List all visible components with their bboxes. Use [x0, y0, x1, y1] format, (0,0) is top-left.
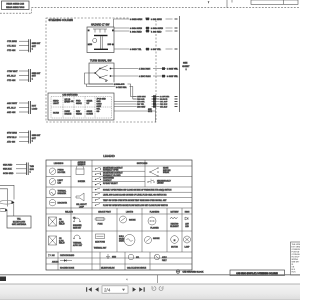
wire bundle row 2: [133, 97, 178, 101]
connector group C: [7, 101, 38, 114]
legend table: [46, 154, 192, 270]
title block: [230, 270, 285, 276]
svg-text:AXLE: AXLE: [162, 256, 167, 259]
svg-text:ANODE: ANODE: [52, 261, 59, 264]
svg-text:HOODED DIODE: HOODED DIODE: [60, 268, 75, 270]
legend cell: relay 4pin: [49, 217, 66, 226]
wire bundle row 5: [114, 105, 178, 109]
legend cell: rotary switch: [95, 182, 119, 185]
svg-text:4GH WHT: 4GH WHT: [7, 103, 18, 105]
svg-text:CAB GROUND BLOCK: CAB GROUND BLOCK: [183, 270, 205, 273]
page number field: [102, 286, 128, 293]
svg-text:FLASHER: FLASHER: [150, 227, 159, 230]
svg-text:SEE: SEE: [183, 63, 188, 65]
svg-text:2/4: 2/4: [104, 288, 111, 293]
svg-text:RELAY: RELAY: [59, 223, 66, 226]
legend cell: buzzer: [76, 165, 86, 183]
legend cell: gauge2: [145, 237, 161, 244]
svg-text:SWITCHES: SWITCHES: [137, 163, 148, 165]
connector group D: [7, 131, 41, 144]
next page button: [133, 287, 136, 292]
legend cell: discharge sensor: [49, 200, 67, 206]
wire hazard top: [114, 17, 178, 27]
legend cell: axle: [154, 254, 167, 262]
svg-text:190: 190: [89, 44, 92, 46]
svg-text:MOTOR: MOTOR: [171, 247, 178, 249]
svg-text:SPL: SPL: [136, 257, 139, 259]
legend cell: splice: [127, 254, 147, 269]
svg-text:LIGHTS: LIGHTS: [126, 211, 134, 213]
svg-text:BLUETOOTH: BLUETOOTH: [13, 221, 26, 223]
svg-text:RELAYS: RELAYS: [65, 210, 73, 213]
note box: [291, 242, 303, 275]
svg-text:RUN: RUN: [292, 271, 297, 273]
svg-text:4 C92C RGA: 4 C92C RGA: [116, 86, 127, 89]
svg-text:1GG: 1GG: [108, 44, 112, 46]
svg-text:C0G GRU: C0G GRU: [137, 107, 146, 109]
svg-text:TEMP SW OPEN OPEN WTR SHOKE T: TEMP SW OPEN OPEN WTR SHOKE TEMP RISE HI…: [103, 199, 167, 202]
svg-text:NORMALLY CLOSED: NORMALLY CLOSED: [103, 174, 121, 177]
svg-text:HORN: HORN: [53, 113, 59, 115]
svg-text:SH 2: SH 2: [148, 111, 152, 113]
turn signal switch S2: [89, 59, 114, 84]
legend cell: fuse: [95, 218, 106, 226]
svg-text:BREAK: BREAK: [163, 171, 170, 174]
svg-text:MAN RST: MAN RST: [73, 226, 82, 229]
svg-text:GOB GRD: GOB GRD: [3, 173, 14, 175]
svg-text:LINKED: LINKED: [157, 183, 164, 185]
next view button: [159, 286, 163, 290]
svg-text:CONTACT: CONTACT: [103, 179, 112, 182]
svg-text:GEAR: GEAR: [76, 102, 82, 105]
wire bundle row 1: [133, 95, 178, 99]
svg-text:CTW WHT: CTW WHT: [7, 71, 18, 73]
svg-text:CIRCUIT PROT: CIRCUIT PROT: [98, 211, 112, 213]
svg-text:HAZARD LT SW: HAZARD LT SW: [91, 24, 110, 27]
wire: [0, 8, 300, 14]
svg-text:4 GG YEL: 4 GG YEL: [151, 49, 162, 51]
connector group B: [7, 69, 41, 82]
legend cell: bulb: [119, 235, 135, 246]
svg-text:CTD GN: CTD GN: [7, 80, 16, 82]
last page button: [139, 287, 145, 292]
svg-text:DOWN: DOWN: [87, 114, 94, 116]
svg-text:9TL BLU: 9TL BLU: [7, 75, 16, 77]
svg-text:6EA BLK: 6EA BLK: [3, 168, 12, 171]
wire turn signal common B: [87, 84, 173, 99]
svg-text:GAUGE: GAUGE: [153, 237, 160, 240]
svg-text:FLOW SW OPEN WTR SHOKE FLOW R: FLOW SW OPEN WTR SHOKE FLOW RATE LOW SET…: [103, 204, 169, 207]
legend cell: hooded diode: [60, 254, 75, 270]
legend row: level switch: [95, 193, 167, 196]
svg-text:STEERING COLUMN: STEERING COLUMN: [49, 19, 74, 22]
connector group A: [7, 39, 41, 52]
wire turn signal 1: [114, 67, 181, 71]
svg-text:ELEMENT: ELEMENT: [170, 226, 179, 228]
legend cell: relay 5pin: [49, 236, 66, 245]
svg-text:THERMAL RST: THERMAL RST: [94, 247, 108, 250]
svg-text:GEAR: GEAR: [76, 113, 82, 116]
svg-text:CATHODE BAND: CATHODE BAND: [60, 254, 75, 257]
wire bundle row 4: [114, 102, 178, 106]
wire turn signal 2: [114, 74, 181, 78]
svg-text:LEGEND: LEGEND: [103, 154, 115, 158]
hazard light switch S1: [87, 24, 114, 53]
svg-text:4 G8B YEL: 4 G8B YEL: [167, 76, 179, 78]
svg-text:GRT ANTENNA: GRT ANTENNA: [12, 223, 27, 226]
svg-text:1 GG RED: 1 GG RED: [151, 31, 162, 33]
svg-text:CAB HVAC (DISPLAY) / STEERING: CAB HVAC (DISPLAY) / STEERING COLUMN: [236, 272, 278, 275]
svg-text:4GD GN: 4GD GN: [7, 112, 16, 114]
svg-text:DARK: DARK: [119, 240, 125, 243]
svg-text:REAR GEN2 WSS: REAR GEN2 WSS: [6, 6, 25, 9]
legend cell: breaker auto: [73, 235, 83, 247]
legend cell: ground sym: [101, 254, 117, 270]
svg-text:4 GG GRN: 4 GG GRN: [151, 19, 162, 21]
svg-text:REAR GEN2 CAB: REAR GEN2 CAB: [6, 3, 24, 6]
svg-text:9TL BLU: 9TL BLU: [7, 107, 16, 109]
svg-text:BUZZER: BUZZER: [78, 181, 86, 183]
legend cell: heating element: [170, 217, 180, 228]
svg-text:RELAY: RELAY: [59, 242, 66, 245]
legend cell: pressure sensor: [49, 168, 66, 174]
prev page button: [95, 287, 98, 292]
svg-text:LOAD: LOAD: [32, 107, 38, 110]
svg-text:NORMALLY OPEN: NORMALLY OPEN: [103, 169, 119, 172]
svg-text:MAXI FUSE: MAXI FUSE: [95, 241, 105, 244]
wire bundle row 3: [114, 100, 178, 104]
legend cell: thermal sensor: [49, 189, 66, 195]
svg-text:LEGENDS: LEGENDS: [54, 163, 64, 165]
wire hazard bottom: [114, 47, 178, 51]
svg-text:LAMP: LAMP: [185, 246, 191, 249]
svg-text:SEE SHT: SEE SHT: [32, 135, 41, 137]
svg-text:CTR BRN: CTR BRN: [7, 41, 17, 43]
legend cell: mechanically linked: [147, 179, 171, 185]
legend cell: horn: [76, 193, 88, 208]
svg-text:CTL BLU: CTL BLU: [7, 46, 16, 48]
svg-text:FLASHERS: FLASHERS: [150, 210, 160, 213]
svg-text:LAMP: LAMP: [79, 205, 85, 208]
wire to sheet 2: [114, 107, 156, 123]
grid lines: [46, 160, 192, 270]
svg-text:ROTARY SELECT: ROTARY SELECT: [103, 182, 119, 185]
toolbar: [0, 284, 300, 300]
svg-text:TURN SIGNAL SW: TURN SIGNAL SW: [90, 59, 112, 62]
legend row: pressure switch: [95, 188, 172, 191]
svg-text:4 B9C RGH: 4 B9C RGH: [139, 76, 151, 78]
svg-text:4 B92 RGH: 4 B92 RGH: [139, 69, 151, 71]
multifunction switch panel: [48, 93, 114, 120]
steering column enclosure: [46, 18, 156, 122]
svg-text:NORMLY OPEN PRESS SW CLOSE ON: NORMLY OPEN PRESS SW CLOSE ON RISE OF PR…: [103, 189, 172, 191]
svg-text:LEVEL SW CLOSE CLOSE ON RISE: LEVEL SW CLOSE CLOSE ON RISE OF LEVEL FL…: [103, 194, 167, 197]
svg-text:SEE SHT: SEE SHT: [32, 73, 41, 75]
legend cell: breaker sym: [94, 234, 108, 250]
node: sheet boundary bus: [180, 16, 191, 112]
legend cell: make before break: [149, 167, 171, 177]
svg-text:4 GGB GRN: 4 GGB GRN: [130, 19, 143, 21]
svg-text:SEE SHT: SEE SHT: [32, 43, 41, 45]
svg-text:FUSE: FUSE: [98, 224, 104, 226]
svg-text:9TW BRN: 9TW BRN: [7, 132, 17, 134]
first page button: [86, 287, 92, 292]
legend cell: anode: [49, 254, 60, 264]
svg-text:CAB SWITCHES: CAB SWITCHES: [62, 94, 78, 97]
wire turn signal common A: [85, 73, 173, 97]
svg-text:4 GGD YEL: 4 GGD YEL: [130, 49, 142, 51]
connector: top-right box: [251, 0, 298, 4]
svg-text:SHEET: SHEET: [182, 66, 190, 68]
svg-text:AUTO RST: AUTO RST: [73, 244, 83, 247]
svg-text:SUS: SUS: [30, 169, 35, 171]
ground symbol: cab ground block: [176, 270, 204, 274]
legend row: temp switch: [95, 198, 167, 201]
svg-text:4TD GN: 4TD GN: [7, 141, 15, 143]
svg-text:6EA RED: 6EA RED: [3, 163, 13, 166]
prev view button: [152, 286, 156, 290]
svg-text:CTD GN: CTD GN: [7, 50, 16, 52]
svg-text:GRD: GRD: [112, 257, 117, 259]
svg-text:BRAKE: BRAKE: [65, 113, 72, 116]
svg-text:TMB: TMB: [30, 166, 35, 168]
svg-text:GAUGE: GAUGE: [129, 219, 136, 222]
svg-text:1 GG4 RED: 1 GG4 RED: [130, 31, 142, 33]
legend cell: momentary no switch: [95, 166, 124, 171]
svg-text:9TW BLU: 9TW BLU: [7, 137, 17, 139]
legend cell: momentary nc switch: [95, 172, 124, 177]
legend cell: maintained switch: [95, 177, 115, 182]
svg-text:BREAKER: BREAKER: [58, 192, 67, 195]
legend cell: light sensor: [49, 179, 63, 185]
svg-text:C7L BLU: C7L BLU: [160, 107, 168, 109]
svg-text:LPS D: LPS D: [65, 101, 71, 103]
legend cell: flasher: [148, 217, 159, 230]
legend cell: led: [185, 217, 189, 228]
wire: [208, 0, 232, 8]
svg-text:HOOTER: HOOTER: [58, 172, 66, 174]
wire hazard right 1: [114, 26, 178, 30]
svg-text:CALCULATOR DEVICE: CALCULATOR DEVICE: [127, 267, 147, 270]
svg-text:HIGH: HIGH: [185, 211, 190, 213]
svg-text:FMLY: FMLY: [162, 260, 167, 262]
legend cell: breaker manual: [73, 218, 82, 230]
wire hazard right 2: [114, 29, 178, 33]
svg-text:4 G8B YEL: 4 G8B YEL: [167, 69, 179, 71]
antenna assembly: [0, 185, 31, 228]
legend cell: gauge: [120, 216, 137, 223]
svg-text:MILESTONE AVI: MILESTONE AVI: [101, 267, 115, 270]
legend row: flow switch: [95, 204, 169, 207]
frame line: [0, 275, 300, 283]
legend cell: lamp2: [184, 236, 191, 249]
connector: rear harness box: [2, 1, 30, 10]
svg-text:DISCHGTR: DISCHGTR: [58, 202, 68, 204]
svg-text:LIGHT: LIGHT: [53, 103, 60, 105]
legend headers: [54, 161, 190, 214]
connector group E: [3, 163, 34, 176]
svg-text:BATTERY: BATTERY: [170, 210, 179, 213]
legend cell: motor: [171, 236, 179, 249]
